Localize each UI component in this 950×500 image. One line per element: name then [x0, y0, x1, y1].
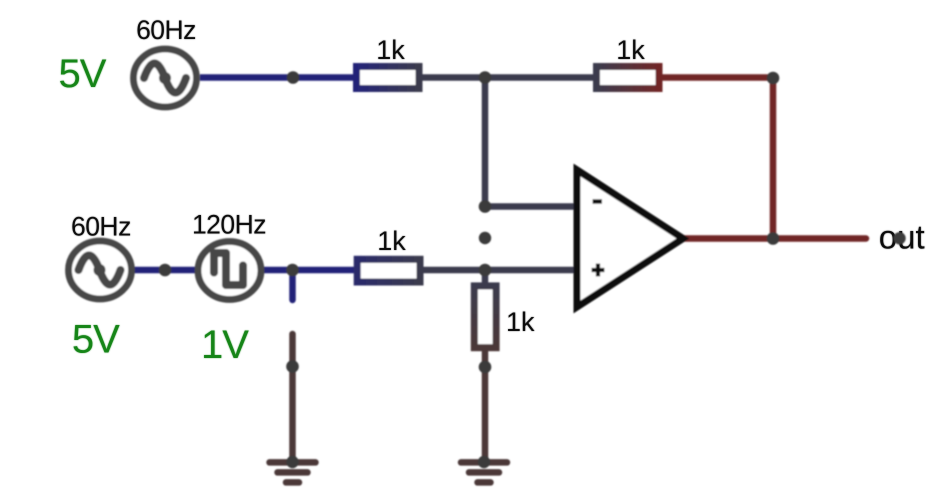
node dot top-right feedback corner — [767, 72, 780, 85]
wire from resistor R2 to top-right corner — [661, 74, 773, 81]
node dot on hanging wire — [286, 360, 299, 373]
wire stub below node at V3 output — [289, 272, 296, 300]
node dot below V3 output — [286, 264, 299, 277]
wire op-amp output to out terminal — [682, 235, 866, 242]
wire from resistor R4 down to ground G2 — [482, 349, 489, 462]
svg-text:5V: 5V — [72, 318, 120, 362]
svg-text:1V: 1V — [201, 323, 249, 367]
voltage source V1 (sine, 60Hz 5V) — [134, 49, 197, 107]
voltage source V3 (square, 120Hz 1V) — [198, 242, 261, 300]
wire from resistor R3 to op-amp noninverting input — [422, 267, 580, 274]
op-amp U1 — [577, 170, 683, 307]
node dot at output junction — [767, 232, 780, 245]
resistor R1 — [357, 67, 420, 89]
wire hanging segment down to ground G1 — [289, 334, 296, 462]
node dot at noninverting input junction — [479, 264, 492, 277]
text labels (soft underlay) — [59, 15, 925, 367]
wire feedback vertical from corner down to output node — [770, 78, 777, 239]
svg-text:60Hz: 60Hz — [136, 15, 196, 45]
resistor R3 — [357, 259, 420, 282]
svg-text:1k: 1k — [506, 307, 535, 337]
svg-text:1k: 1k — [376, 35, 405, 65]
resistor R4 (vertical) — [474, 286, 496, 348]
wire vertical from top node down to inverting input — [482, 78, 489, 207]
svg-text:5V: 5V — [59, 52, 107, 96]
svg-text:1k: 1k — [616, 35, 645, 65]
ground G2 — [461, 456, 507, 483]
wire from source V3 to resistor R3 — [261, 267, 358, 274]
node dot at inverting input corner — [479, 200, 492, 213]
node dot on top wire between V1 and R1 — [287, 71, 300, 84]
svg-text:1k: 1k — [377, 226, 406, 256]
svg-text:120Hz: 120Hz — [192, 210, 266, 240]
node dot between V2 and V3 — [159, 264, 172, 277]
wire from +input node down to resistor R4 — [482, 270, 489, 286]
wire from resistor R1 to resistor R2 (node between) — [421, 74, 595, 81]
resistor R2 — [597, 67, 660, 89]
node dot at out terminal — [893, 232, 905, 244]
node dot below resistor R4 — [479, 361, 492, 374]
wire from source V2 to source V3 — [133, 267, 197, 274]
floating node dot between inputs — [479, 232, 491, 244]
svg-text:60Hz: 60Hz — [71, 212, 131, 242]
wire to op-amp inverting input — [485, 203, 580, 210]
wire from source V1 to resistor R1 — [200, 74, 357, 81]
node dot top junction above inverting input — [479, 71, 492, 84]
voltage source V2 (sine, 60Hz 5V) — [69, 241, 132, 299]
ground G1 — [270, 456, 316, 483]
